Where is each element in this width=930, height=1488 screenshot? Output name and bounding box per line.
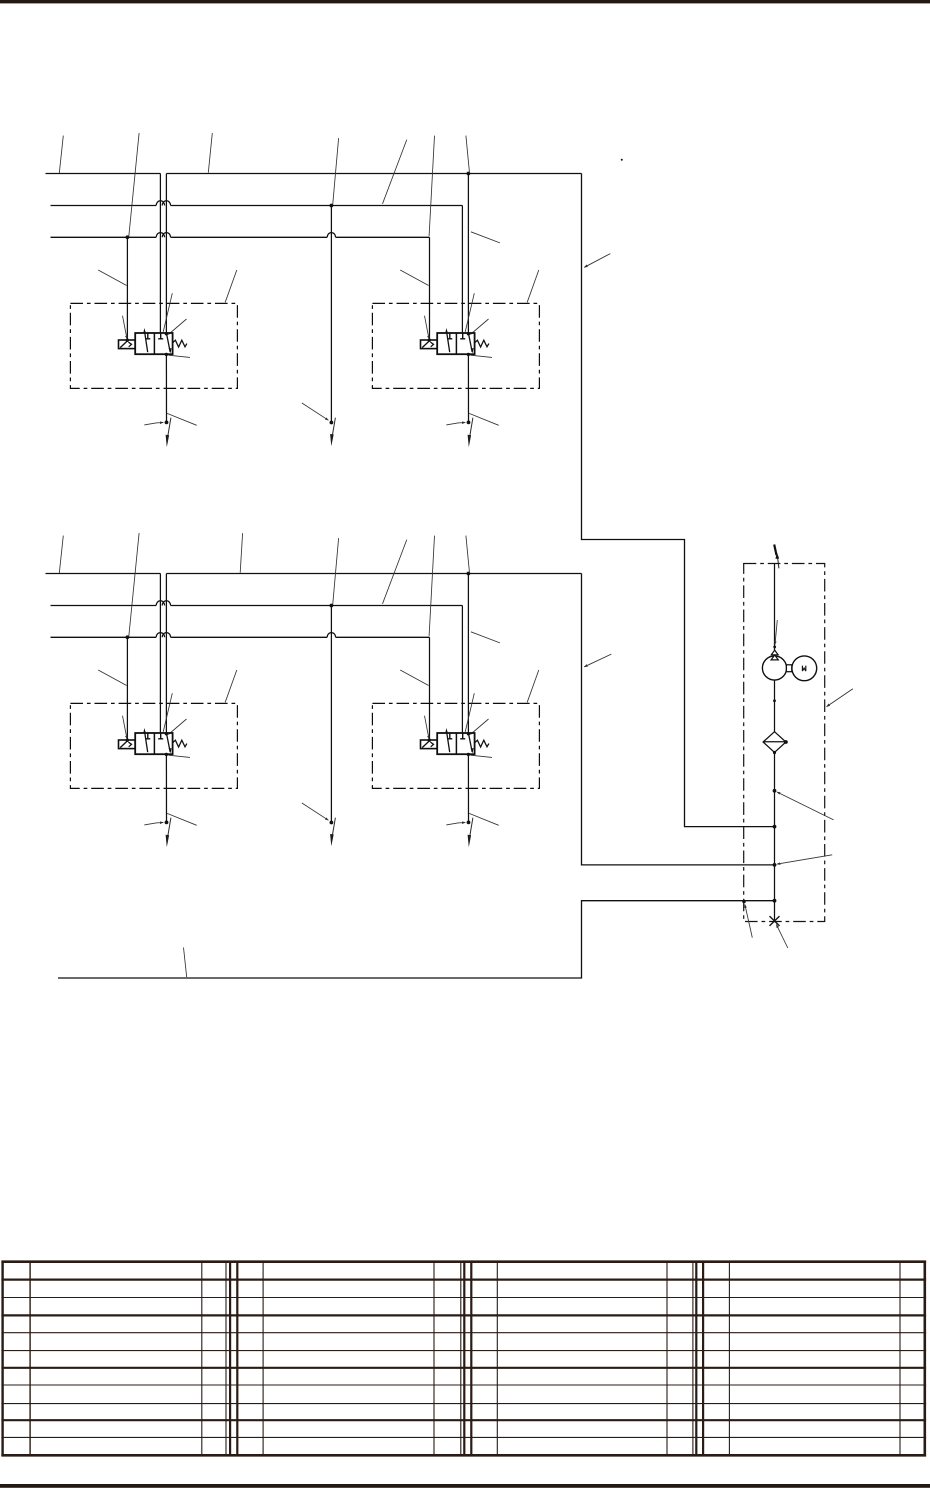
leader to lower bus 1 — [59, 536, 63, 574]
flow continuation stub — [774, 545, 776, 556]
leader to bus 1 — [59, 136, 63, 174]
leader to valve 4 supply drop — [471, 632, 500, 643]
pump unit enclosure (dash-dot box) — [744, 564, 825, 922]
solenoid valve unit 3 — [70, 670, 237, 847]
leader to lower header junction — [777, 855, 832, 864]
plugged port X — [770, 916, 780, 926]
node: bus3 tap for solenoid 1 — [126, 235, 130, 239]
leader to solenoid 3 pilot tap — [129, 533, 139, 636]
leader to bus 2 — [383, 140, 407, 204]
wire: bus line 2 (upper manifold) — [51, 205, 463, 207]
wire: valve 1 supply drop (right) — [165, 174, 167, 334]
wire: bus line 3 (pilot line, upper manifold) — [51, 236, 430, 238]
leader to lower pump riser — [584, 654, 611, 667]
node: bus3 tap for solenoid 3 — [126, 635, 130, 639]
leader to lower bus 2 — [383, 540, 407, 604]
motor circle M1 — [792, 656, 817, 681]
leader to lower bus 1 (second) — [240, 533, 242, 573]
leader to lower bus 2 tap — [333, 538, 339, 605]
page rule bottom — [0, 1484, 930, 1488]
filter F1 (diamond) — [763, 732, 786, 753]
stray reference dot — [621, 159, 623, 161]
wire: valve 2 supply drop (right) — [467, 174, 469, 334]
leader to bus 1 (second) — [208, 133, 212, 173]
wire: bus2 corner drop to valve 2 — [461, 206, 463, 334]
crossover hops on lower bus 3 — [156, 633, 335, 638]
pump outlet check (double triangles) — [771, 650, 778, 660]
node: filter bottom dot — [773, 751, 776, 754]
leader to discharge line — [775, 620, 777, 645]
node: junction with upper header — [773, 825, 777, 829]
crossover hop on bus 2 — [156, 201, 170, 206]
solenoid valve unit 4 — [372, 670, 539, 847]
wire: suction manifold line — [774, 752, 776, 921]
node: dot above pump — [773, 646, 776, 649]
wire: lower header to pump suction — [582, 574, 775, 865]
wire: bus line 1 (supply header, lower manifold) — [46, 573, 582, 575]
page rule top — [0, 0, 930, 3]
wire: solenoid 1 pilot drop — [126, 237, 128, 340]
wire: bus line 2 (lower manifold) — [51, 605, 463, 607]
node: dot above filter — [773, 699, 776, 702]
leader to lower bus 3 corner — [429, 536, 434, 637]
wire: header to pump unit (right riser) — [582, 174, 775, 827]
wire: pump discharge line — [774, 564, 776, 650]
motor label M (inverted) — [802, 666, 805, 672]
leader from boundary dot — [745, 905, 752, 938]
leader to solenoid 1 pilot tap — [129, 133, 139, 236]
node: bus2 tap for branch line (lower) — [330, 604, 334, 608]
wire: valve 3 supply drop (left) — [159, 574, 161, 734]
wire: bus line 3 (pilot line, lower manifold) — [51, 636, 430, 638]
node: enclosure boundary dot — [742, 900, 746, 904]
node: filter side dot — [784, 740, 788, 744]
crossover hop on lower bus 2 — [156, 601, 170, 606]
node: bus1 tap for valve 4 — [467, 572, 471, 576]
node: junction with lower header — [773, 863, 777, 867]
leader to junction A — [777, 792, 834, 820]
wire: solenoid 4 pilot drop — [429, 637, 431, 740]
wire: solenoid 3 pilot drop — [126, 637, 128, 740]
leader to pump riser — [584, 254, 610, 268]
motor shaft coupling — [786, 665, 791, 672]
wire: solenoid 2 pilot drop — [429, 237, 431, 340]
branch outlet arrow between valves — [302, 205, 336, 446]
crossover hops on bus 3 — [156, 233, 335, 238]
leader to valve 2 supply drop — [471, 232, 500, 243]
wire: bus2 corner drop to valve 4 — [461, 606, 463, 734]
leader to pump enclosure — [827, 689, 853, 707]
wire: bus line 1 (supply header, upper manifold) — [46, 173, 582, 175]
filter element line — [763, 741, 786, 743]
leader to valve 2 supply tap — [466, 136, 470, 173]
node: suction junction A — [773, 789, 777, 793]
wire: pump suction line upper — [774, 680, 776, 732]
table column lines — [1, 1261, 3, 1457]
solenoid valve unit 1 — [70, 270, 237, 447]
flow arrow (discharge, up) — [778, 558, 779, 569]
leader to bus 3 corner — [429, 136, 434, 237]
wire: valve 4 supply drop (right) — [467, 574, 469, 734]
leader to bus 2 tap — [333, 138, 339, 205]
node: bus1 tap for valve 2 — [467, 172, 471, 176]
leader to valve 4 supply tap — [466, 536, 470, 573]
node: junction with tank return — [773, 899, 777, 903]
table row lines — [1, 1260, 926, 1263]
leader to plugged port — [776, 925, 787, 948]
wire: valve 3 supply drop (right) — [165, 574, 167, 734]
pump circle P1 — [762, 656, 786, 680]
node: bus2 tap for branch line — [330, 204, 334, 208]
solenoid valve unit 2 — [372, 270, 539, 447]
wire: valve 1 supply drop (left) — [159, 174, 161, 334]
wire: tank return line (bottom) — [58, 901, 775, 978]
leader to tank return line — [184, 948, 187, 978]
branch outlet arrow between valves (lower) — [302, 605, 336, 846]
